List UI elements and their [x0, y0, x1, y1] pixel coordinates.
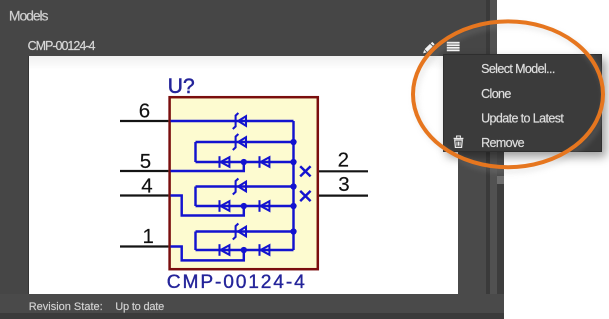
wire loop rows4-5 — [194, 187, 196, 207]
wire row6 — [196, 230, 294, 232]
svg-text:Update to Latest: Update to Latest — [481, 112, 564, 126]
wire row5 — [196, 205, 294, 207]
wire: right vertical bus — [292, 121, 294, 250]
junction bus row5 — [290, 203, 296, 209]
svg-text:6: 6 — [139, 99, 150, 122]
svg-text:Select Model...: Select Model... — [481, 62, 555, 76]
junction row5 mid — [241, 203, 247, 209]
scrollbar dark band — [497, 184, 504, 319]
pin 3 line — [319, 195, 368, 197]
svg-text:CMP-00124-4: CMP-00124-4 — [28, 39, 96, 53]
bottom status bar — [0, 294, 504, 319]
svg-text:Models: Models — [9, 8, 49, 24]
svg-text:Revision State:: Revision State: — [29, 301, 103, 313]
diode D6 row3 right — [260, 156, 270, 168]
symbol body box CMP-00124-4 — [170, 97, 318, 269]
svg-text:1: 1 — [142, 225, 153, 248]
canvas top shading — [29, 56, 458, 70]
pencil edit icon — [422, 42, 435, 55]
white preview canvas — [29, 56, 458, 294]
wire pin5 jog — [171, 162, 244, 171]
no-connect cross pin2 — [300, 166, 310, 176]
wire row3 — [196, 161, 294, 163]
pin 4 line — [120, 194, 168, 196]
svg-text:Remove: Remove — [481, 136, 525, 150]
panel header background — [0, 0, 496, 56]
wire loop rows6-7 — [194, 232, 196, 251]
junction bus row2 — [290, 139, 296, 145]
wire pin4 jog — [171, 196, 244, 216]
canvas left boundary line — [28, 56, 30, 294]
wire row1 (pin6) — [171, 120, 294, 122]
junction bus row6 — [290, 228, 296, 234]
pin 6 line — [120, 120, 168, 122]
junction row7 mid — [241, 247, 247, 253]
wire row7 — [196, 249, 294, 251]
svg-text:Clone: Clone — [481, 87, 511, 101]
TVS diode D1 row1 — [233, 113, 246, 129]
bottom darker strip — [0, 313, 504, 319]
pin 1 line — [120, 245, 168, 247]
TVS diode D3 row4 — [233, 179, 246, 195]
junction bus row3 — [290, 159, 296, 165]
svg-text:2: 2 — [338, 149, 349, 172]
svg-text:3: 3 — [338, 173, 349, 196]
hamburger menu icon — [447, 42, 460, 51]
annotation ellipse orange — [413, 21, 603, 167]
svg-text:Up to date: Up to date — [115, 301, 164, 313]
no-connect cross pin3 — [300, 191, 310, 201]
TVS diode D4 row6 — [233, 224, 246, 240]
junction row3 mid — [241, 159, 247, 165]
wire pin1 jog — [171, 247, 244, 261]
diode D10 row7 right — [260, 244, 270, 256]
scrollbar thumb cap — [497, 176, 504, 184]
svg-text:U?: U? — [168, 75, 195, 98]
svg-text:5: 5 — [140, 150, 151, 173]
diode D5 row3 left — [220, 156, 230, 168]
diode D8 row5 right — [260, 200, 270, 212]
mid vertical band — [490, 0, 497, 319]
annotation ellipse shadow — [416, 25, 606, 171]
context menu box — [443, 54, 603, 153]
wire row2 — [196, 141, 294, 143]
darker vertical line — [486, 0, 490, 319]
svg-text:CMP-00124-4: CMP-00124-4 — [167, 272, 307, 293]
right strip base — [458, 56, 504, 295]
TVS diode D2 row2 — [233, 134, 246, 150]
pin 5 line — [120, 170, 168, 172]
diode D9 row7 left — [220, 244, 230, 256]
svg-text:4: 4 — [141, 174, 152, 197]
panel left column — [0, 0, 29, 319]
diode D7 row5 left — [220, 200, 230, 212]
pin 2 line — [319, 170, 368, 172]
trash icon — [454, 136, 464, 147]
junction bus row4 — [290, 183, 296, 189]
wire loop rows2-3 — [194, 142, 196, 162]
wire row4 — [196, 185, 294, 187]
